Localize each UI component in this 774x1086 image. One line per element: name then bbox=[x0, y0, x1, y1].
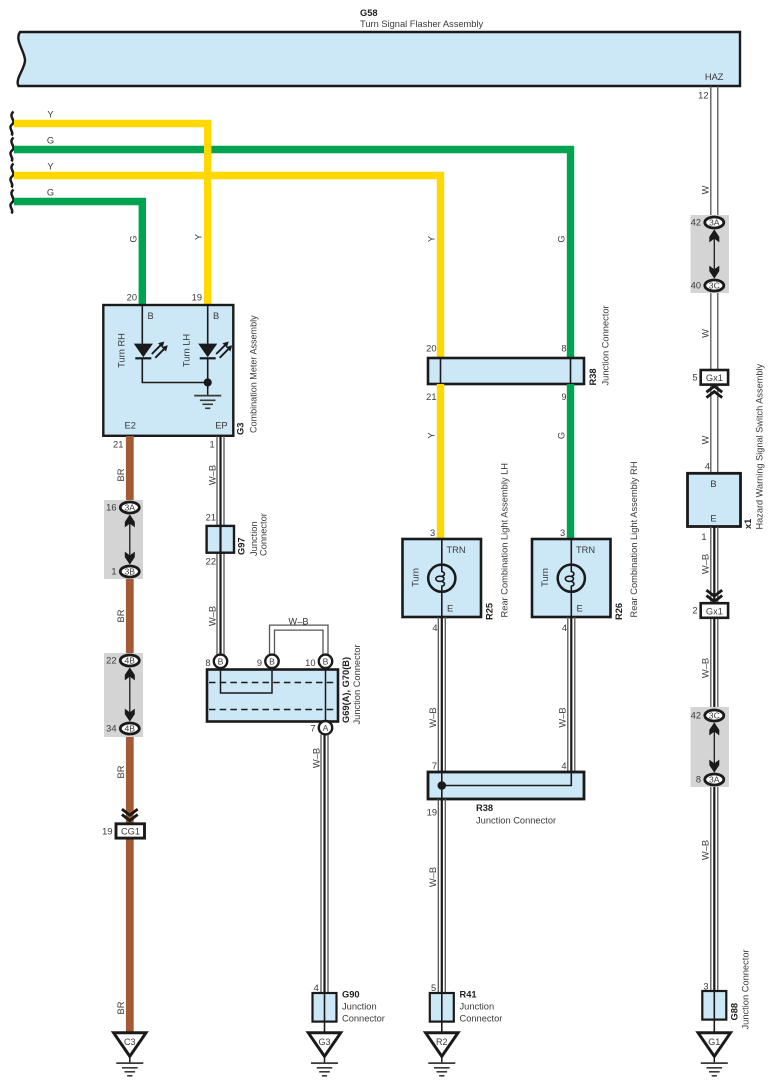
svg-text:TRN: TRN bbox=[447, 545, 466, 555]
svg-text:20: 20 bbox=[127, 293, 137, 303]
svg-text:19: 19 bbox=[102, 827, 112, 837]
svg-text:G88: G88 bbox=[730, 1003, 740, 1021]
svg-text:Junction Connector: Junction Connector bbox=[352, 644, 362, 724]
svg-text:Hazard Warning Signal Switch A: Hazard Warning Signal Switch Assembly bbox=[755, 363, 765, 529]
svg-text:G90: G90 bbox=[342, 990, 360, 1000]
svg-text:Turn: Turn bbox=[540, 568, 550, 587]
svg-text:EP: EP bbox=[215, 421, 227, 431]
svg-text:W–B: W–B bbox=[428, 867, 438, 887]
svg-text:R41: R41 bbox=[460, 990, 477, 1000]
svg-text:Turn LH: Turn LH bbox=[182, 334, 192, 367]
svg-text:5: 5 bbox=[431, 983, 436, 993]
svg-text:BR: BR bbox=[116, 1001, 126, 1014]
svg-text:B: B bbox=[218, 656, 224, 666]
svg-text:Junction: Junction bbox=[342, 1002, 377, 1012]
svg-text:BR: BR bbox=[116, 609, 126, 622]
svg-text:G: G bbox=[47, 136, 54, 146]
svg-text:W–B: W–B bbox=[288, 617, 308, 627]
svg-text:C3: C3 bbox=[124, 1037, 136, 1047]
svg-text:Combination Meter Assembly: Combination Meter Assembly bbox=[249, 315, 259, 433]
svg-text:20: 20 bbox=[426, 344, 436, 354]
svg-text:3: 3 bbox=[560, 528, 565, 538]
svg-text:B: B bbox=[710, 479, 716, 489]
svg-text:1: 1 bbox=[701, 532, 706, 542]
svg-text:Y: Y bbox=[194, 234, 204, 240]
svg-text:12: 12 bbox=[698, 91, 708, 101]
svg-text:Y: Y bbox=[427, 236, 437, 242]
svg-text:40: 40 bbox=[691, 281, 701, 291]
svg-text:W–B: W–B bbox=[311, 748, 321, 768]
svg-text:W–B: W–B bbox=[207, 606, 217, 626]
svg-text:3C: 3C bbox=[709, 711, 720, 721]
svg-text:Connector: Connector bbox=[259, 513, 269, 556]
svg-text:W–B: W–B bbox=[700, 554, 710, 574]
svg-text:Rear Combination Light Assembl: Rear Combination Light Assembly LH bbox=[500, 463, 510, 618]
svg-text:G3: G3 bbox=[236, 423, 246, 435]
svg-text:E2: E2 bbox=[125, 421, 136, 431]
svg-text:1: 1 bbox=[210, 440, 215, 450]
svg-text:Junction Connector: Junction Connector bbox=[741, 949, 751, 1029]
svg-text:4: 4 bbox=[562, 623, 567, 633]
svg-text:19: 19 bbox=[427, 808, 437, 818]
svg-text:BR: BR bbox=[116, 765, 126, 778]
svg-text:1: 1 bbox=[111, 567, 116, 577]
svg-text:R38: R38 bbox=[476, 803, 493, 813]
svg-text:Connector: Connector bbox=[460, 1014, 503, 1024]
svg-text:9: 9 bbox=[257, 658, 262, 668]
svg-text:4: 4 bbox=[705, 462, 710, 472]
svg-text:Rear Combination Light Assembl: Rear Combination Light Assembly RH bbox=[629, 461, 639, 617]
svg-text:3C: 3C bbox=[709, 281, 720, 291]
svg-text:Y: Y bbox=[47, 162, 53, 172]
svg-text:R26: R26 bbox=[614, 603, 624, 620]
svg-text:Junction: Junction bbox=[249, 521, 259, 556]
svg-text:W–B: W–B bbox=[558, 707, 568, 727]
svg-text:3A: 3A bbox=[709, 218, 720, 228]
svg-text:Connector: Connector bbox=[342, 1014, 385, 1024]
svg-text:9: 9 bbox=[561, 392, 566, 402]
svg-text:Y: Y bbox=[47, 110, 53, 120]
svg-text:4: 4 bbox=[314, 983, 319, 993]
svg-text:W–B: W–B bbox=[700, 840, 710, 860]
svg-text:B: B bbox=[269, 656, 275, 666]
svg-text:E: E bbox=[710, 514, 716, 524]
svg-text:2: 2 bbox=[692, 606, 697, 616]
svg-text:Gx1: Gx1 bbox=[706, 373, 723, 383]
svg-text:E: E bbox=[577, 604, 583, 614]
svg-text:E: E bbox=[447, 604, 453, 614]
svg-text:G: G bbox=[557, 235, 567, 242]
svg-text:3A: 3A bbox=[709, 775, 720, 785]
svg-text:Y: Y bbox=[427, 432, 437, 438]
svg-text:10: 10 bbox=[305, 658, 315, 668]
svg-text:R2: R2 bbox=[436, 1037, 448, 1047]
svg-text:Turn RH: Turn RH bbox=[117, 333, 127, 368]
svg-text:7: 7 bbox=[432, 761, 437, 771]
svg-text:A: A bbox=[323, 723, 329, 733]
svg-text:16: 16 bbox=[106, 503, 116, 513]
svg-text:R38: R38 bbox=[588, 368, 598, 385]
svg-text:G: G bbox=[557, 432, 567, 439]
svg-text:22: 22 bbox=[206, 557, 216, 567]
svg-text:4: 4 bbox=[432, 623, 437, 633]
svg-text:Junction Connector: Junction Connector bbox=[476, 816, 556, 826]
svg-text:42: 42 bbox=[691, 711, 701, 721]
svg-text:8: 8 bbox=[696, 775, 701, 785]
svg-text:4B: 4B bbox=[125, 724, 136, 734]
svg-text:3A: 3A bbox=[125, 503, 136, 513]
svg-text:21: 21 bbox=[206, 512, 216, 522]
svg-text:W: W bbox=[700, 185, 710, 194]
svg-text:HAZ: HAZ bbox=[705, 72, 724, 82]
svg-text:BR: BR bbox=[116, 468, 126, 481]
svg-text:8: 8 bbox=[561, 344, 566, 354]
svg-text:G69(A), G70(B): G69(A), G70(B) bbox=[341, 657, 351, 723]
svg-text:Turn Signal Flasher Assembly: Turn Signal Flasher Assembly bbox=[360, 19, 483, 29]
svg-text:8: 8 bbox=[205, 658, 210, 668]
svg-text:3: 3 bbox=[430, 528, 435, 538]
svg-text:G3: G3 bbox=[318, 1037, 330, 1047]
svg-text:19: 19 bbox=[192, 293, 202, 303]
svg-text:34: 34 bbox=[106, 724, 116, 734]
svg-text:CG1: CG1 bbox=[121, 827, 140, 837]
svg-text:4B: 4B bbox=[125, 656, 136, 666]
svg-text:W–B: W–B bbox=[428, 707, 438, 727]
svg-text:W–B: W–B bbox=[207, 465, 217, 485]
svg-text:Junction: Junction bbox=[460, 1002, 495, 1012]
svg-text:B: B bbox=[148, 311, 154, 321]
svg-text:Turn: Turn bbox=[410, 568, 420, 587]
svg-text:B: B bbox=[323, 656, 329, 666]
svg-text:W: W bbox=[700, 329, 710, 338]
svg-text:W: W bbox=[700, 435, 710, 444]
svg-text:4: 4 bbox=[561, 761, 566, 771]
svg-text:W–B: W–B bbox=[700, 658, 710, 678]
svg-text:7: 7 bbox=[310, 724, 315, 734]
svg-text:B: B bbox=[213, 311, 219, 321]
svg-text:22: 22 bbox=[106, 656, 116, 666]
svg-text:x1: x1 bbox=[743, 519, 753, 529]
svg-text:21: 21 bbox=[426, 392, 436, 402]
svg-text:G58: G58 bbox=[360, 8, 378, 18]
svg-text:3B: 3B bbox=[125, 567, 136, 577]
svg-text:Junction Connector: Junction Connector bbox=[601, 305, 611, 385]
svg-text:Gx1: Gx1 bbox=[706, 606, 723, 616]
svg-text:G97: G97 bbox=[237, 537, 247, 555]
svg-text:G: G bbox=[128, 235, 138, 242]
svg-text:G: G bbox=[47, 188, 54, 198]
svg-text:21: 21 bbox=[113, 440, 123, 450]
svg-text:5: 5 bbox=[692, 373, 697, 383]
svg-text:TRN: TRN bbox=[576, 545, 595, 555]
svg-text:42: 42 bbox=[691, 218, 701, 228]
svg-text:R25: R25 bbox=[485, 603, 495, 620]
svg-text:G1: G1 bbox=[708, 1037, 720, 1047]
